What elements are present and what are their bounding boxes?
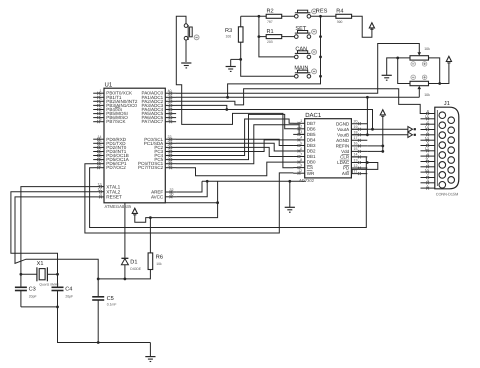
wire top button to ground xyxy=(185,40,187,62)
J1 socket pin 15 xyxy=(448,117,455,124)
svg-text:21: 21 xyxy=(98,164,102,168)
svg-text:DIODE: DIODE xyxy=(130,267,141,271)
U1 pin 28 PC6 xyxy=(138,160,176,167)
svg-text:VoutB: VoutB xyxy=(337,132,349,137)
DAC1 pin 12 WR xyxy=(293,169,315,176)
junction pot right xyxy=(438,82,441,85)
U1 pin 2 PB1 xyxy=(93,93,122,100)
U1 pin 5 PB4 xyxy=(93,105,122,112)
svg-text:PD: PD xyxy=(343,166,350,171)
wire PD7 to CLR xyxy=(90,157,367,228)
J1 socket pin 7 xyxy=(439,122,446,129)
wire AREF riser xyxy=(177,181,202,192)
resistor R2 xyxy=(266,9,282,24)
svg-text:6: 6 xyxy=(427,131,429,135)
U1 pin 35 PA5 xyxy=(142,109,177,116)
wire VoutA to arrow xyxy=(351,128,408,130)
junction C5 top xyxy=(97,278,100,281)
push button SET xyxy=(295,26,317,38)
svg-text:203: 203 xyxy=(267,40,273,44)
U1 pin 36 PA4 xyxy=(142,105,177,112)
svg-text:7: 7 xyxy=(427,120,429,124)
J1 socket pin 6 xyxy=(439,132,446,139)
U1 pin 18 PD4 xyxy=(93,151,129,158)
svg-text:CLR: CLR xyxy=(340,155,350,160)
DAC1 pin 20 DGND xyxy=(336,120,367,127)
power VCC near R4 xyxy=(369,23,374,30)
wire VCC bottom line xyxy=(135,203,218,223)
wire SET row xyxy=(259,36,295,38)
svg-text:C4: C4 xyxy=(65,287,72,293)
svg-text:3: 3 xyxy=(427,163,429,167)
svg-text:10: 10 xyxy=(425,168,429,172)
junction C5 bottom xyxy=(97,341,100,344)
output arrow VoutA xyxy=(408,127,416,132)
svg-text:DB2: DB2 xyxy=(307,149,316,154)
U1 pin 40 PA0 xyxy=(142,89,177,96)
svg-text:4: 4 xyxy=(427,152,429,156)
svg-text:10k: 10k xyxy=(424,47,430,51)
capacitor C4 20pF xyxy=(52,287,74,299)
ground DAC AREF xyxy=(285,207,295,212)
DAC1 pin 19 VoutA xyxy=(337,125,367,132)
wire XTAL2 to crystal xyxy=(11,192,97,275)
wire PC4 to DB7 xyxy=(176,119,293,156)
U1 pin 22 PC0 xyxy=(144,135,176,142)
U1 pin 4 PB3 xyxy=(93,101,137,108)
power VCC near DAC xyxy=(380,110,385,117)
svg-text:A/B: A/B xyxy=(342,171,349,176)
svg-text:R1: R1 xyxy=(267,29,274,35)
wire RESET net xyxy=(15,197,98,279)
U1 pin 20 PD6 xyxy=(93,160,127,167)
svg-text:5: 5 xyxy=(427,142,429,146)
DAC1 pin 12 PD xyxy=(343,164,367,171)
svg-text:13: 13 xyxy=(354,158,358,162)
svg-text:9: 9 xyxy=(300,163,302,167)
DAC1 pin 16 REFIN xyxy=(336,142,368,149)
junction REFIN xyxy=(381,145,384,148)
svg-text:7: 7 xyxy=(300,152,302,156)
capacitor C3 20pF xyxy=(15,287,37,299)
svg-text:AGND: AGND xyxy=(336,138,350,143)
svg-text:3: 3 xyxy=(300,130,302,134)
svg-text:6: 6 xyxy=(300,147,302,151)
wire pot left rail xyxy=(387,58,410,84)
J1 socket pin 4 xyxy=(439,152,446,159)
svg-text:32: 32 xyxy=(170,188,174,192)
svg-text:REFIN: REFIN xyxy=(336,144,350,149)
svg-text:U1: U1 xyxy=(105,81,113,88)
svg-text:33: 33 xyxy=(168,118,172,122)
resistor R6 xyxy=(148,253,163,270)
DAC1 pin 4 DB4 xyxy=(293,136,316,143)
wire AVCC riser xyxy=(177,181,208,197)
DAC1 pin 18 VoutB xyxy=(337,131,367,138)
svg-text:9: 9 xyxy=(100,193,102,197)
resistor R3 xyxy=(225,27,243,42)
wire R3 top xyxy=(240,16,242,27)
svg-text:C3: C3 xyxy=(29,287,36,293)
wire C5 leads xyxy=(97,279,99,343)
svg-text:C5: C5 xyxy=(107,296,114,302)
junction PA1 VoutB riser xyxy=(366,96,369,99)
J1 pin 6 xyxy=(421,131,435,136)
U1 pin 15 PD1 xyxy=(93,139,126,146)
svg-text:DGND: DGND xyxy=(336,121,350,126)
wire PC6 to DB5 xyxy=(176,125,305,164)
U1 pin 26 PC4 xyxy=(154,151,176,158)
U1 pin 34 PA6 xyxy=(142,113,177,120)
svg-text:9: 9 xyxy=(427,179,429,183)
svg-text:R3: R3 xyxy=(225,28,232,34)
crystal X1 Quartz 8MHz xyxy=(37,261,60,287)
svg-text:Quartz 8MHz: Quartz 8MHz xyxy=(39,283,59,287)
U1 pin 8 PB7 xyxy=(93,118,125,125)
DAC1 pin 17 AGND xyxy=(336,136,367,143)
output arrow VoutB xyxy=(408,132,416,137)
svg-text:15: 15 xyxy=(425,115,429,119)
svg-text:PB7/SCK: PB7/SCK xyxy=(106,119,125,124)
wire dac ground riser xyxy=(289,181,291,207)
J1 pin 3 xyxy=(421,163,435,168)
DAC1 pin 14 CLR xyxy=(340,153,367,160)
wire R3 bottom to ground and MAIN xyxy=(231,42,295,76)
svg-text:ATMEGA8535: ATMEGA8535 xyxy=(105,204,132,209)
J1 socket pin 2 xyxy=(439,172,446,179)
svg-text:DB3: DB3 xyxy=(307,143,316,148)
U1 pin 6 PB5 xyxy=(93,109,128,116)
svg-text:10k: 10k xyxy=(156,262,162,266)
wire PA0 to POT1 wiper xyxy=(176,44,419,94)
J1 socket pin 11 xyxy=(448,157,455,164)
J1 pin 10 xyxy=(421,168,435,173)
J1 socket pin 14 xyxy=(448,127,455,134)
wire reset node xyxy=(98,270,150,279)
ground R3 xyxy=(226,59,236,71)
U1 pin 9 RESET xyxy=(97,193,122,200)
svg-text:29: 29 xyxy=(168,164,172,168)
svg-text:8: 8 xyxy=(300,158,302,162)
wire D1 to VCC line xyxy=(125,181,218,257)
J1 socket pin 8 xyxy=(439,112,446,119)
push button RES xyxy=(295,8,328,18)
U1 pin 13 XTAL1 xyxy=(97,182,121,189)
svg-text:RESET: RESET xyxy=(106,195,122,200)
svg-text:8: 8 xyxy=(427,110,429,114)
svg-text:CONN-D15M: CONN-D15M xyxy=(436,192,459,196)
J1 pin 13 xyxy=(421,136,435,141)
U1 pin 27 PC5 xyxy=(154,155,176,162)
svg-text:5: 5 xyxy=(300,141,302,145)
svg-text:4: 4 xyxy=(300,136,302,140)
junction cap rail xyxy=(56,306,59,309)
wire POT2 wiper stem xyxy=(418,89,420,97)
svg-text:DB6: DB6 xyxy=(307,126,316,131)
junction chip-bottom VCC xyxy=(216,201,219,204)
wire top button to CS net xyxy=(176,16,293,167)
svg-text:1: 1 xyxy=(427,184,429,188)
svg-text:0.1mF: 0.1mF xyxy=(107,303,117,307)
resistor R4 xyxy=(336,9,352,24)
svg-text:DB7: DB7 xyxy=(307,121,316,126)
svg-text:11: 11 xyxy=(425,158,429,162)
wire C4 leads xyxy=(57,274,59,307)
push button CAN xyxy=(295,46,317,58)
svg-text:13: 13 xyxy=(98,182,102,186)
svg-text:17: 17 xyxy=(354,136,358,140)
svg-text:390: 390 xyxy=(337,20,343,24)
svg-text:20: 20 xyxy=(354,120,358,124)
J1 pin 15 xyxy=(421,115,435,120)
power VCC below U1 xyxy=(132,208,137,215)
wire PC2 to DB1 xyxy=(176,147,293,156)
U1 pin 23 PC1 xyxy=(144,139,176,146)
svg-text:MAIN: MAIN xyxy=(294,66,308,72)
junction AVCC node xyxy=(206,180,209,183)
svg-text:13: 13 xyxy=(425,136,429,140)
J1 pin 11 xyxy=(421,158,435,163)
wire 181 line xyxy=(202,180,306,182)
wire crystal left lead xyxy=(21,273,37,275)
junction rail RES xyxy=(319,15,322,18)
potentiometer RV2 10k xyxy=(410,81,430,97)
junction rail MAIN xyxy=(319,75,322,78)
svg-text:VoutA: VoutA xyxy=(337,127,349,132)
wire PA2 to J1 pin 8 xyxy=(176,89,433,114)
wire PC0 to DB3 xyxy=(176,139,293,145)
J1 pin 8 xyxy=(421,110,435,115)
svg-text:16: 16 xyxy=(354,142,358,146)
diode D1 xyxy=(121,258,141,279)
wire buttons right rail to PA1 xyxy=(228,16,321,97)
ground pots xyxy=(382,75,392,80)
junction R2 left xyxy=(258,15,261,18)
DAC1 pin 3 DB5 xyxy=(293,130,316,137)
wire VCC to REFIN and Vdd xyxy=(367,116,383,151)
wire cap bottom rail xyxy=(21,306,58,308)
junction gnd riser xyxy=(288,180,291,183)
svg-text:14: 14 xyxy=(425,126,429,130)
svg-text:AVCC: AVCC xyxy=(151,195,164,200)
svg-text:2: 2 xyxy=(300,125,302,129)
microcontroller U1 ATMEGA8535 body xyxy=(104,81,165,209)
junction crystal right xyxy=(56,273,59,276)
push button MAIN xyxy=(294,66,316,78)
wire VoutB riser xyxy=(366,97,368,135)
J1 socket pin 3 xyxy=(439,162,446,169)
ground crystal rail xyxy=(145,343,155,362)
U1 pin 3 PB2 xyxy=(93,97,138,104)
wire XTAL1 to crystal xyxy=(21,187,97,275)
J1 pin 12 xyxy=(421,147,435,152)
DAC1 pin 7 DB1 xyxy=(293,152,316,159)
junction rail SET xyxy=(319,35,322,38)
wire bottom ground rail xyxy=(58,307,151,343)
wire PD6 to WR xyxy=(85,164,294,233)
U1 pin 25 PC3 xyxy=(154,147,176,154)
wire R6 top lead xyxy=(149,218,151,253)
junction R6 top xyxy=(149,216,152,219)
wire RES row left xyxy=(241,15,295,17)
junction D1 bottom xyxy=(124,278,127,281)
U1 pin 21 PD7 xyxy=(93,164,126,171)
J1 pin 7 xyxy=(421,120,435,125)
svg-text:J1: J1 xyxy=(444,101,450,107)
junction LDAC stub xyxy=(366,161,369,164)
pot adjust buttons xyxy=(411,62,427,80)
U1 pin 16 PD2 xyxy=(93,143,127,150)
wire crystal right lead xyxy=(47,273,57,275)
wire PA1 row to POT2 wiper xyxy=(176,96,419,98)
ground top button xyxy=(181,63,191,68)
J1 pin 9 xyxy=(421,179,435,184)
U1 pin 19 PD5 xyxy=(93,155,130,162)
U1 pin 29 PC7 xyxy=(138,164,176,171)
junction VoutB xyxy=(366,133,369,136)
svg-text:D1: D1 xyxy=(130,260,137,266)
J1 pin 14 xyxy=(421,126,435,131)
svg-text:787: 787 xyxy=(267,20,273,24)
svg-text:10k: 10k xyxy=(424,93,430,97)
wire VoutB to arrow xyxy=(351,134,408,136)
svg-text:DAC1: DAC1 xyxy=(305,112,322,119)
svg-text:DB4: DB4 xyxy=(307,138,316,143)
DAC1 pin 8 DB0 xyxy=(293,158,316,165)
svg-text:Vdd: Vdd xyxy=(341,149,350,154)
svg-text:14: 14 xyxy=(354,153,358,157)
svg-text:12: 12 xyxy=(354,164,358,168)
svg-text:PC7/TOSC2: PC7/TOSC2 xyxy=(138,165,164,170)
wire PC7 to DB0 xyxy=(176,162,293,176)
J1 socket pin 13 xyxy=(448,137,455,144)
svg-text:R2: R2 xyxy=(267,9,274,15)
svg-text:18: 18 xyxy=(354,131,358,135)
junction PA1 rail xyxy=(226,96,229,99)
svg-text:R6: R6 xyxy=(156,254,163,260)
svg-text:1: 1 xyxy=(300,119,302,123)
DAC1 pin 13 LDAC xyxy=(337,158,367,165)
junction VoutA xyxy=(371,128,374,131)
wire PC1 to DB2 xyxy=(176,143,293,151)
svg-text:11: 11 xyxy=(354,169,358,173)
resistor R1 xyxy=(266,29,282,44)
svg-text:CAN: CAN xyxy=(295,46,307,52)
U1 pin 14 PD0 xyxy=(93,135,127,142)
DAC1 pin 5 DB3 xyxy=(293,141,316,148)
svg-text:2: 2 xyxy=(427,174,429,178)
junction crystal left xyxy=(20,273,23,276)
svg-text:12: 12 xyxy=(298,169,302,173)
wire PA3 jog xyxy=(176,105,227,109)
J1 pin 1 xyxy=(421,184,435,189)
svg-text:PA7/ADC7: PA7/ADC7 xyxy=(142,119,164,124)
wire PA4 to VoutA xyxy=(176,110,373,130)
U1 pin 32 AREF xyxy=(151,188,176,195)
J1 pin 4 xyxy=(421,152,435,157)
DAC U2 AD7302 body xyxy=(299,112,351,183)
svg-text:12: 12 xyxy=(98,188,102,192)
U1 pin 37 PA3 xyxy=(142,101,177,108)
junction rail CAN xyxy=(319,56,322,59)
J1 socket pin 10 xyxy=(448,167,455,174)
DAC1 pin 15 Vdd xyxy=(341,147,367,154)
svg-text:19: 19 xyxy=(354,125,358,129)
junction Vdd xyxy=(381,150,384,153)
svg-text:DB5: DB5 xyxy=(307,132,316,137)
U1 pin 30 AVCC xyxy=(151,193,177,200)
potentiometer RV1 10k xyxy=(410,47,430,60)
svg-text:8: 8 xyxy=(100,118,102,122)
svg-text:WR: WR xyxy=(307,171,315,176)
junction R3 bottom xyxy=(239,58,242,61)
svg-text:20pF: 20pF xyxy=(65,294,73,298)
junction PA3/PA4 xyxy=(225,108,228,111)
wire LDAC hook xyxy=(351,163,377,174)
DAC1 pin 2 DB6 xyxy=(293,125,316,132)
svg-text:RES: RES xyxy=(316,8,328,14)
U1 pin 24 PC2 xyxy=(154,143,176,150)
capacitor C5 0.1mF xyxy=(92,296,116,307)
U1 pin 33 PA7 xyxy=(142,118,177,125)
junction pot left xyxy=(396,57,399,60)
push button top-left xyxy=(184,24,199,40)
svg-text:LDAC: LDAC xyxy=(337,160,350,165)
U1 pin 39 PA1 xyxy=(142,93,177,100)
connector J1 CONN-D15M body xyxy=(435,101,459,196)
U1 pin 7 PB6 xyxy=(93,113,128,120)
svg-text:R4: R4 xyxy=(336,9,343,15)
J1 socket pin 12 xyxy=(448,147,455,154)
DAC1 pin 6 DB2 xyxy=(293,147,316,154)
wire C3 leads xyxy=(20,274,22,307)
J1 socket pin 9 xyxy=(448,177,455,184)
junction R1 left xyxy=(258,35,261,38)
J1 pin 5 xyxy=(421,142,435,147)
U1 pin 38 PA2 xyxy=(142,97,177,104)
DAC1 pin 11 A/B xyxy=(342,169,367,176)
DAC1 pin 9 CS xyxy=(293,163,313,170)
svg-text:CS: CS xyxy=(307,165,313,170)
wire R-bus vertical xyxy=(259,16,295,57)
J1 socket pin 5 xyxy=(439,142,446,149)
U1 pin 1 PB0 xyxy=(93,89,132,96)
svg-text:20pF: 20pF xyxy=(29,294,37,298)
wire RES button to R4 to VCC xyxy=(311,16,372,37)
svg-text:DB1: DB1 xyxy=(307,154,316,159)
DAC1 pin 1 DB7 xyxy=(293,119,316,126)
svg-text:DB0: DB0 xyxy=(307,160,316,165)
U1 pin 12 XTAL2 xyxy=(97,188,121,195)
svg-text:30: 30 xyxy=(170,193,174,197)
svg-text:PD7/OC2: PD7/OC2 xyxy=(106,165,126,170)
svg-text:15: 15 xyxy=(354,147,358,151)
J1 pin 2 xyxy=(421,174,435,179)
wire pot right rail xyxy=(429,58,449,84)
power VCC pots xyxy=(446,56,451,63)
svg-text:X1: X1 xyxy=(37,261,44,267)
wire PC3 to DB4 xyxy=(176,140,293,152)
svg-text:100: 100 xyxy=(226,34,232,38)
wire PC5 to DB6 xyxy=(176,114,293,159)
U1 pin 17 PD3 xyxy=(93,147,127,154)
svg-text:SET: SET xyxy=(295,26,306,32)
svg-text:AD7302: AD7302 xyxy=(299,178,315,183)
svg-text:12: 12 xyxy=(425,147,429,151)
J1 socket pin 1 xyxy=(439,182,446,189)
